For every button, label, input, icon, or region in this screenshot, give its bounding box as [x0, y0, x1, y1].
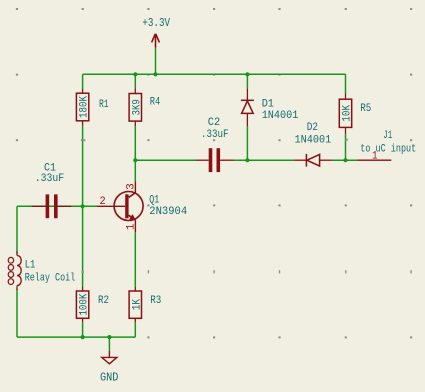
- wire GND stub: [108, 337, 110, 351]
- ground symbol: [102, 351, 117, 364]
- wire L1 column bottom: [16, 289, 18, 338]
- wire R3 to bottom rail: [134, 322, 136, 337]
- svg-text:3K9: 3K9: [131, 99, 143, 115]
- svg-text:D1: D1: [262, 98, 275, 110]
- wire C2 right to D1 node: [234, 159, 295, 161]
- svg-text:R5: R5: [360, 103, 371, 115]
- wire R5 column top: [345, 74, 347, 93]
- wire power stub: [155, 48, 157, 75]
- wire base node to R2: [82, 206, 84, 287]
- wire D1 column top: [246, 74, 248, 88]
- diode D1: [241, 88, 254, 126]
- wire R4 bottom to collector node: [134, 126, 136, 160]
- resistor R4: [129, 88, 141, 126]
- svg-text:C2: C2: [208, 117, 220, 129]
- wire collector node to Q1: [134, 160, 136, 181]
- svg-text:Q1: Q1: [149, 194, 159, 206]
- svg-text:1N4001: 1N4001: [295, 135, 332, 147]
- svg-text:to uC input: to uC input: [360, 144, 416, 156]
- wire R2 to bottom rail: [82, 322, 84, 337]
- connector J1: [358, 159, 392, 161]
- wire R4 column top: [134, 74, 136, 88]
- svg-text:GND: GND: [100, 371, 118, 384]
- svg-text:2: 2: [100, 196, 106, 208]
- svg-text:.33uF: .33uF: [35, 173, 64, 185]
- power +3.3V: [152, 34, 160, 48]
- svg-text:1K: 1K: [131, 299, 143, 311]
- svg-text:R2: R2: [98, 295, 109, 307]
- resistor R5: [339, 94, 351, 134]
- wire Q1 emitter to R3: [134, 232, 136, 287]
- wire bottom rail: [17, 336, 135, 338]
- inductor L1: [8, 252, 21, 291]
- transistor Q1: [97, 182, 143, 233]
- wire base row: [17, 205, 97, 207]
- svg-text:.33uF: .33uF: [201, 129, 229, 141]
- wire middle row C2 left: [135, 159, 196, 161]
- wire L1 column top: [16, 206, 18, 253]
- svg-text:L1: L1: [25, 260, 36, 272]
- svg-text:J1: J1: [383, 130, 392, 142]
- svg-text:Relay Coil: Relay Coil: [25, 273, 76, 285]
- svg-text:D2: D2: [307, 122, 318, 134]
- wire R1 to base node: [82, 126, 84, 207]
- capacitor C1: [32, 194, 72, 218]
- resistor R1: [76, 89, 88, 126]
- diode D2: [294, 154, 332, 167]
- wire R5 column bottom: [345, 134, 347, 161]
- wire top rail: [83, 73, 346, 75]
- svg-text:3: 3: [125, 183, 137, 190]
- svg-text:1N4001: 1N4001: [262, 110, 299, 122]
- svg-text:R4: R4: [150, 96, 161, 108]
- svg-text:100K: 100K: [79, 293, 91, 315]
- resistor R3: [129, 287, 141, 322]
- wire D1 column bottom: [246, 126, 248, 160]
- svg-text:2N3904: 2N3904: [149, 206, 187, 218]
- capacitor C2: [196, 148, 234, 172]
- svg-text:+3.3V: +3.3V: [142, 17, 170, 30]
- svg-text:10K: 10K: [342, 105, 354, 122]
- svg-text:R1: R1: [99, 99, 109, 111]
- wire D2 right to R5 node: [332, 159, 358, 161]
- svg-text:R3: R3: [150, 295, 161, 307]
- svg-text:180K: 180K: [79, 96, 91, 118]
- wire R1 column: [82, 74, 84, 89]
- resistor R2: [76, 287, 88, 322]
- svg-text:1: 1: [125, 223, 137, 230]
